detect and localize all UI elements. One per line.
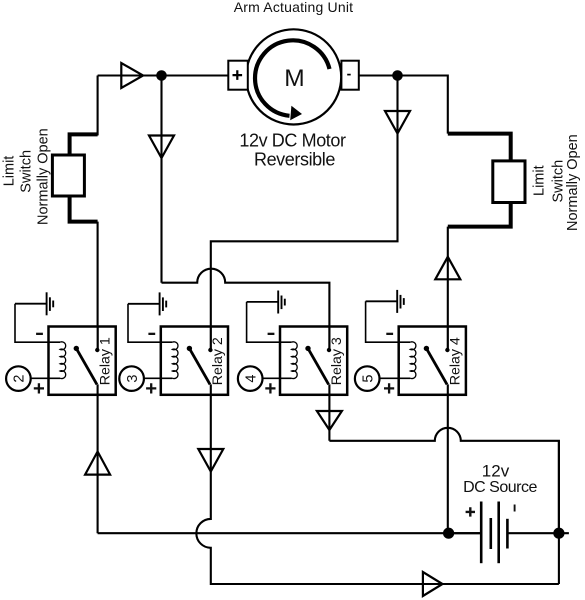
svg-text:4: 4 bbox=[244, 375, 260, 383]
svg-text:Reversible: Reversible bbox=[254, 150, 335, 170]
relay K4 box bbox=[399, 327, 466, 395]
relay K2 + label bbox=[146, 383, 156, 393]
wire: ground to relay K1 coil - terminal bbox=[15, 304, 60, 343]
svg-text:Normally Open: Normally Open bbox=[565, 134, 581, 231]
wire: ground to relay K3 coil - terminal bbox=[247, 302, 292, 342]
motor M1 (12v DC reversible) body bbox=[246, 29, 341, 124]
relay K4 coil bbox=[410, 342, 416, 379]
ground (relay K2 coil negative) bbox=[128, 292, 166, 315]
node C (battery + junction) bbox=[443, 528, 454, 539]
motor terminal - (right brush) bbox=[341, 61, 358, 90]
relay K3 box bbox=[280, 327, 347, 395]
wire: relay K1 coil + terminal to pin circle bbox=[30, 377, 60, 379]
relay K3 switch contact (from top wire) bbox=[327, 327, 331, 353]
wire: relay K2 arm down (hop over K1 wire) then right along bottom to node D bbox=[196, 384, 559, 584]
wire: battery plates to node C and node D bbox=[449, 532, 569, 534]
relay K4 switch contact (from top wire) bbox=[445, 327, 449, 353]
svg-text:3: 3 bbox=[125, 375, 141, 383]
svg-text:5: 5 bbox=[361, 375, 377, 383]
flow arrow (down) on node A vertical wire bbox=[149, 136, 174, 159]
motor terminal + (left brush) bbox=[228, 61, 248, 90]
node D (battery - junction) bbox=[553, 528, 564, 539]
svg-text:Switch: Switch bbox=[18, 150, 34, 193]
limit switch SW2 (right, normally open) bbox=[448, 134, 525, 227]
wire: node A down then right to relay K3 contact (with hop over K2 wire) bbox=[162, 76, 330, 328]
relay K1 switch contact (from top wire) bbox=[95, 327, 99, 353]
relay K3 + label bbox=[265, 383, 275, 393]
relay K4 switch arm bbox=[424, 346, 447, 385]
svg-text:Limit: Limit bbox=[1, 156, 17, 187]
wire: relay K3 coil + terminal to pin circle bbox=[262, 377, 291, 379]
ground (relay K1 coil negative) bbox=[15, 292, 53, 315]
pin circle 4 (relay K3 coil +) bbox=[238, 366, 263, 391]
svg-text:2: 2 bbox=[12, 375, 28, 383]
relay K4 - label bbox=[386, 333, 393, 335]
wire: ground to relay K2 coil - terminal bbox=[128, 304, 172, 342]
wire: relay K2 coil + terminal to pin circle bbox=[144, 377, 173, 379]
svg-text:Relay 2: Relay 2 bbox=[210, 337, 226, 385]
wire: relay K4 arm down to battery + node C bbox=[447, 384, 449, 533]
wire: relay K4 coil + terminal to pin circle bbox=[379, 377, 410, 379]
relay K3 switch arm bbox=[305, 346, 328, 385]
pin circle 2 (relay K1 coil +) bbox=[6, 366, 31, 391]
svg-text:M: M bbox=[284, 65, 304, 92]
node B (motor - junction) bbox=[392, 70, 403, 81]
wire: node D vertical (relay K3 return down to bottom return) bbox=[558, 441, 560, 584]
svg-text:DC Source: DC Source bbox=[463, 479, 537, 496]
svg-text:Relay 3: Relay 3 bbox=[329, 337, 345, 385]
relay K1 + label bbox=[34, 383, 44, 393]
relay K3 - label bbox=[268, 333, 275, 335]
relay K1 switch arm bbox=[74, 346, 97, 385]
wire: ground to relay K4 coil - terminal bbox=[366, 301, 411, 342]
relay K3 coil bbox=[292, 342, 298, 379]
flow arrow (right) on top-left wire bbox=[121, 63, 143, 88]
svg-text:Relay 1: Relay 1 bbox=[98, 337, 114, 385]
flow arrow (down) on K3 bottom wire bbox=[317, 411, 342, 430]
relay K2 switch arm bbox=[187, 346, 210, 385]
wire: relay K1 arm down then right to battery + node C bbox=[98, 384, 482, 533]
pin circle 5 (relay K4 coil +) bbox=[355, 366, 380, 391]
flow arrow (right) on bottom return wire bbox=[423, 572, 443, 596]
node A (motor + junction) bbox=[156, 70, 167, 81]
wire: SW1 bottom down to relay K1 contact bbox=[97, 222, 99, 328]
wire: SW2 bottom down to relay K4 contact bbox=[447, 227, 449, 328]
wire: node A to motor + terminal bbox=[162, 74, 229, 76]
wire: top-left horizontal from limit switch SW1 to node A bbox=[98, 74, 162, 76]
battery BT1 (12v DC source) bbox=[481, 502, 507, 564]
svg-text:Relay 4: Relay 4 bbox=[448, 337, 464, 385]
pin circle 3 (relay K2 coil +) bbox=[119, 366, 144, 391]
flow arrow (up) on K1 bottom wire bbox=[85, 452, 110, 475]
svg-text:12v: 12v bbox=[482, 461, 510, 480]
relay K1 box bbox=[49, 327, 116, 395]
svg-text:Normally Open: Normally Open bbox=[36, 128, 52, 225]
wire: motor - terminal to node B bbox=[359, 74, 398, 76]
relay K2 box bbox=[161, 327, 228, 395]
svg-text:Limit: Limit bbox=[532, 165, 548, 196]
relay K2 - label bbox=[148, 333, 155, 335]
svg-text:Switch: Switch bbox=[551, 160, 567, 203]
svg-text:12v DC Motor: 12v DC Motor bbox=[239, 130, 346, 150]
ground (relay K3 coil negative) bbox=[247, 291, 285, 314]
relay K2 switch contact (from top wire) bbox=[208, 327, 212, 353]
battery - label bbox=[514, 505, 516, 512]
relay K4 + label bbox=[384, 383, 394, 393]
limit switch SW1 (left, normally open) bbox=[52, 134, 97, 221]
wire: node B down then left and down to relay K2 contact bbox=[211, 76, 398, 328]
ground (relay K4 coil negative) bbox=[366, 290, 404, 313]
relay K2 coil bbox=[172, 342, 178, 379]
wire: node A corner down to limit switch SW1 top bbox=[97, 76, 99, 136]
wire: relay K3 arm down then right (hop over K4 wire) and down to node D bbox=[329, 384, 559, 533]
battery + label bbox=[466, 507, 475, 516]
svg-text:Arm Actuating Unit: Arm Actuating Unit bbox=[234, 0, 354, 15]
relay K1 coil bbox=[60, 342, 66, 379]
wire: node B to right limit switch SW2 bbox=[398, 76, 448, 134]
flow arrow (down) on K2 bottom wire bbox=[198, 449, 223, 472]
flow arrow (up) on SW2-K4 wire bbox=[435, 257, 460, 280]
flow arrow (down) on node B vertical wire bbox=[385, 111, 410, 134]
relay K1 - label bbox=[36, 333, 43, 335]
